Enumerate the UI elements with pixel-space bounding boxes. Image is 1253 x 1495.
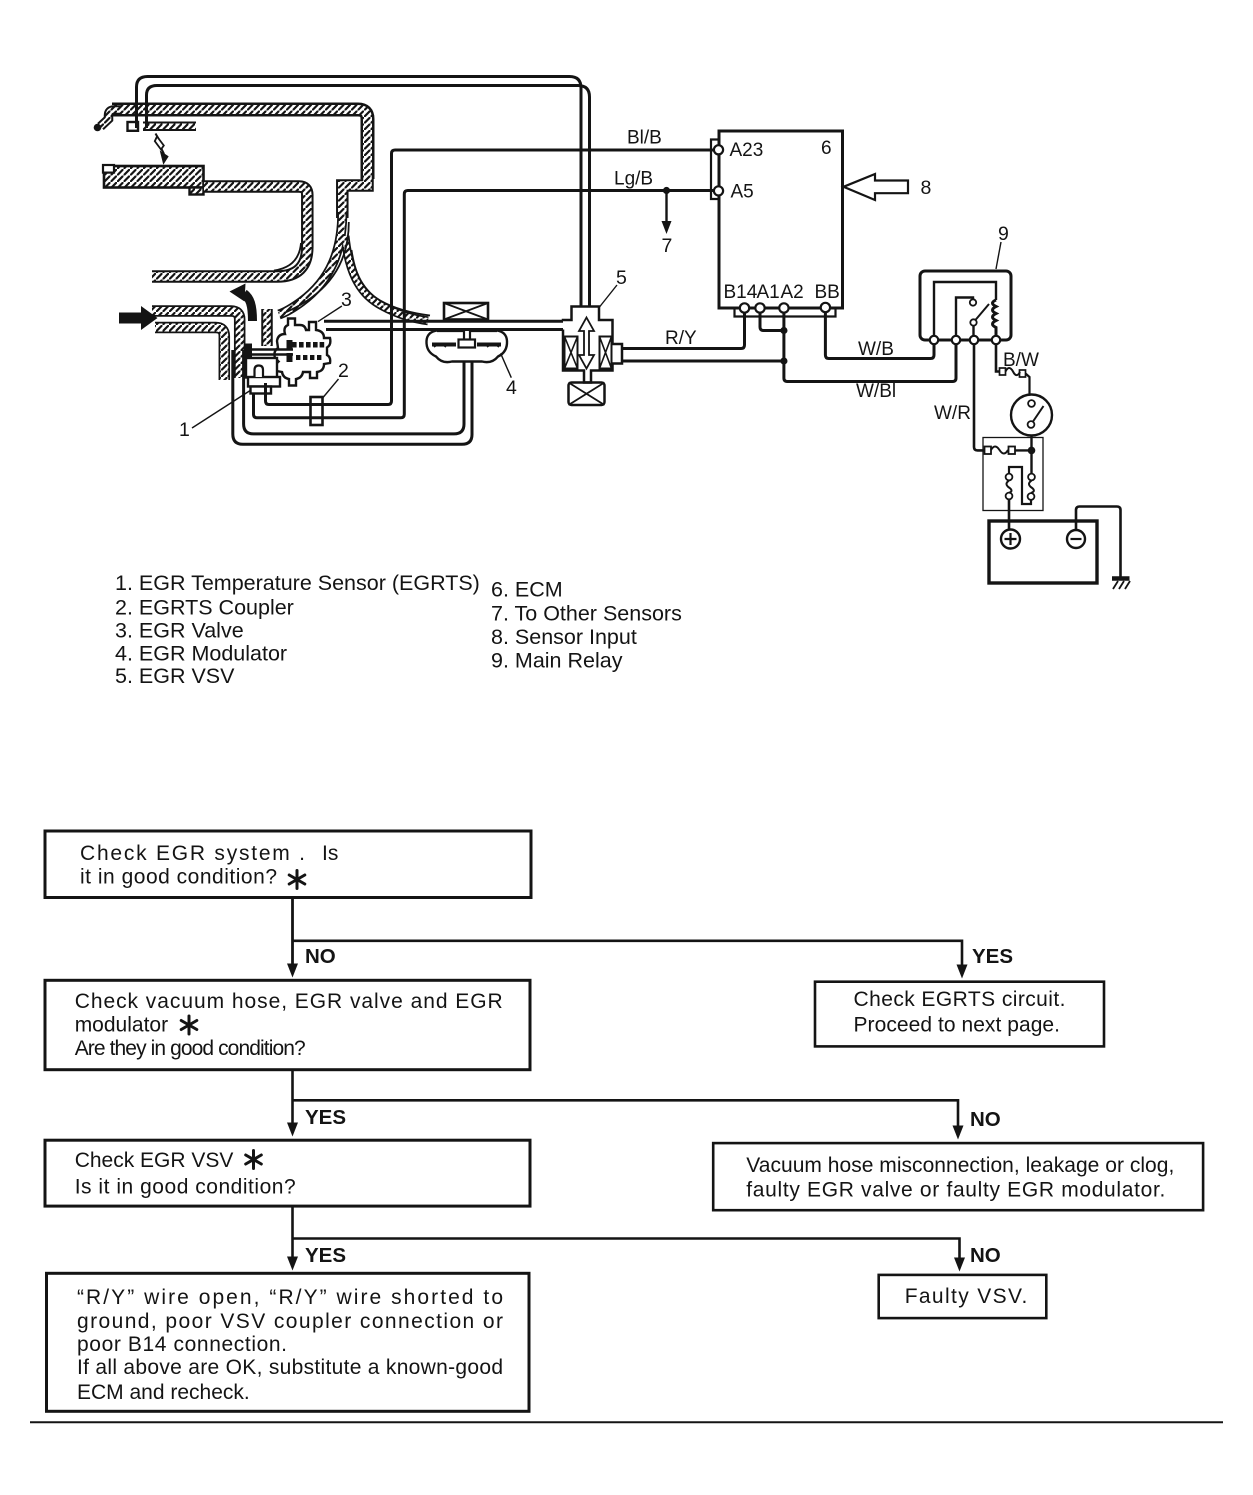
svg-text:5: 5 xyxy=(616,267,627,289)
pin A23 xyxy=(714,145,723,154)
svg-text:7: 7 xyxy=(662,235,673,257)
svg-text:Check vacuum hose, EGR valve a: Check vacuum hose, EGR valve and EGR xyxy=(75,990,503,1013)
wire R/Y (B14 to VSV) xyxy=(622,313,745,349)
flow box 1: Check EGR system xyxy=(45,831,531,898)
sensor input arrow 8 xyxy=(844,174,932,200)
pin B14 xyxy=(740,303,749,312)
throttle body block xyxy=(103,165,204,195)
runner curved walls (wishbone to EGR valve and hose) xyxy=(279,212,428,321)
ECM U6 box xyxy=(719,131,843,308)
callout 9 xyxy=(996,223,1009,269)
svg-text:9. Main Relay: 9. Main Relay xyxy=(491,649,623,673)
bottom rule xyxy=(30,1421,1223,1423)
callout 4 xyxy=(501,353,517,399)
arrow to EGRTS box (YES) xyxy=(957,945,1014,979)
ignition switch xyxy=(1011,395,1052,436)
runner inner thin lines xyxy=(284,222,430,316)
LEGEND xyxy=(115,571,682,688)
wire A2 down xyxy=(784,313,956,382)
pin A5 xyxy=(714,186,723,195)
svg-text:Check EGRTS circuit.: Check EGRTS circuit. xyxy=(854,988,1066,1011)
svg-text:ground, poor VSV coupler conne: ground, poor VSV coupler connection or xyxy=(77,1310,503,1333)
node A1/A2 xyxy=(780,327,787,334)
svg-text:Vacuum hose misconnection, lea: Vacuum hose misconnection, leakage or cl… xyxy=(746,1154,1174,1177)
wire battery negative to ground xyxy=(1076,507,1121,578)
flow box 4: R/Y wire open xyxy=(47,1273,530,1411)
flow box 3: Check EGR VSV xyxy=(45,1140,530,1206)
relay blade xyxy=(975,304,989,321)
ignition to fusible link wire xyxy=(1030,436,1032,474)
arrow box1 to box2 (NO) xyxy=(287,899,336,978)
svg-text:9: 9 xyxy=(998,223,1009,245)
inner wall bar xyxy=(143,122,196,132)
flow box: vacuum hose fault xyxy=(713,1143,1203,1210)
svg-text:2. EGRTS Coupler: 2. EGRTS Coupler xyxy=(115,596,294,620)
wire W/B (BB to relay) xyxy=(825,312,934,359)
node on Lg/B xyxy=(663,187,670,194)
fusible links xyxy=(1006,467,1035,504)
branch line row 1 xyxy=(293,941,963,966)
hose nipple square xyxy=(128,122,139,131)
svg-text:NO: NO xyxy=(970,1108,1001,1131)
ENGINE SECTION xyxy=(94,77,714,445)
svg-text:W/Bl: W/Bl xyxy=(856,381,896,402)
wire B/W (relay to ignition switch) xyxy=(996,344,1039,394)
relay contact upper xyxy=(970,299,976,305)
air horn hook lip xyxy=(94,110,121,131)
svg-text:YES: YES xyxy=(972,945,1013,968)
callout 3 xyxy=(318,289,352,322)
flow box 2: Check vacuum hose xyxy=(45,980,530,1069)
intake pipe top wall xyxy=(152,311,240,378)
svg-text:Check EGR system .: Check EGR system . xyxy=(80,842,305,865)
svg-text:it in good condition?: it in good condition? xyxy=(80,866,277,889)
EGR temperature sensor 1 xyxy=(246,358,280,394)
svg-text:Bl/B: Bl/B xyxy=(627,128,662,149)
flow box: Check EGRTS circuit xyxy=(815,982,1104,1047)
EGRTS wire lower (to Lg/B) xyxy=(254,191,715,418)
EGR modulator 4 xyxy=(426,331,507,363)
EGRTS coupler 2 xyxy=(311,397,323,425)
svg-text:“R/Y” wire open, “R/Y” wire sh: “R/Y” wire open, “R/Y” wire shorted to xyxy=(77,1286,503,1309)
svg-text:A1: A1 xyxy=(757,282,780,303)
branch line row 2 xyxy=(293,1100,959,1127)
ELECTRICAL xyxy=(614,128,1130,590)
EGRTS wire upper (to Bl/B) xyxy=(266,150,715,405)
svg-text:1. EGR Temperature Sensor (EGR: 1. EGR Temperature Sensor (EGRTS) xyxy=(115,571,480,595)
pin A2 xyxy=(779,303,788,312)
svg-text:2: 2 xyxy=(338,360,349,382)
svg-text:6: 6 xyxy=(821,138,832,159)
svg-text:8. Sensor Input: 8. Sensor Input xyxy=(491,625,637,649)
svg-text:Check EGR VSV: Check EGR VSV xyxy=(75,1149,234,1172)
callout 1 xyxy=(179,390,251,441)
fusible link box xyxy=(983,438,1043,511)
svg-text:YES: YES xyxy=(305,1244,346,1267)
pin A1 xyxy=(755,303,764,312)
svg-text:4. EGR Modulator: 4. EGR Modulator xyxy=(115,642,287,666)
EGR valve stem xyxy=(246,344,294,361)
svg-text:1: 1 xyxy=(179,419,190,441)
node W/R junction xyxy=(1028,447,1036,455)
runner wall down from flare xyxy=(342,176,367,218)
intake pipe bottom wall xyxy=(155,328,224,381)
plenum lower wall (L shape) xyxy=(152,187,307,277)
svg-text:Lg/B: Lg/B xyxy=(614,169,653,190)
relay contact lower xyxy=(970,319,976,325)
svg-text:A2: A2 xyxy=(781,282,804,303)
svg-text:faulty EGR valve or faulty EGR: faulty EGR valve or faulty EGR modulator… xyxy=(746,1179,1165,1202)
svg-text:3: 3 xyxy=(341,289,352,311)
wall stub left of EGR valve xyxy=(261,309,273,346)
vacuum hose top run (EGR VSV to manifold port) xyxy=(137,77,590,307)
svg-text:poor B14 connection.: poor B14 connection. xyxy=(77,1333,287,1356)
relay pins xyxy=(930,336,938,344)
EGR valve 3 xyxy=(274,319,330,386)
svg-text:Faulty VSV.: Faulty VSV. xyxy=(905,1285,1028,1308)
FLOWCHART xyxy=(30,831,1223,1422)
node VSV lower wire xyxy=(780,357,787,364)
ECM left connector bracket xyxy=(711,140,719,200)
arrow box3 to box4 (YES) xyxy=(287,1206,346,1270)
arrow to faulty VSV box (NO) xyxy=(954,1244,1001,1272)
relay coil branch xyxy=(934,282,996,336)
svg-text:Are they in good condition?: Are they in good condition? xyxy=(75,1037,306,1060)
svg-text:modulator: modulator xyxy=(75,1014,168,1037)
arrow to other sensors 7 xyxy=(662,193,673,257)
wire VSV lower (to A2 node) xyxy=(622,360,784,363)
wire W/R (relay to fuse) xyxy=(934,344,1032,454)
svg-text:ECM and recheck.: ECM and recheck. xyxy=(77,1381,250,1404)
svg-text:YES: YES xyxy=(305,1106,346,1129)
EGR VSV 5 xyxy=(563,307,622,383)
svg-text:NO: NO xyxy=(970,1244,1001,1267)
relay coil xyxy=(993,300,997,336)
wire A1 jumper xyxy=(760,313,784,331)
svg-text:Is: Is xyxy=(322,842,338,865)
main relay 9 box xyxy=(920,271,1011,340)
svg-text:BB: BB xyxy=(815,282,840,303)
svg-text:3. EGR Valve: 3. EGR Valve xyxy=(115,619,244,643)
VSV bottom filter xyxy=(569,383,605,406)
svg-text:NO: NO xyxy=(305,945,336,968)
svg-text:7. To Other Sensors: 7. To Other Sensors xyxy=(491,602,682,626)
svg-text:5. EGR VSV: 5. EGR VSV xyxy=(115,664,235,688)
callout 2 xyxy=(323,360,349,398)
arrow to vacuum-hose-fault box (NO) xyxy=(953,1108,1001,1140)
arrow box2 to box3 (YES) xyxy=(287,1070,346,1137)
svg-text:Proceed to next page.: Proceed to next page. xyxy=(854,1014,1061,1037)
svg-text:Is it in good condition?: Is it in good condition? xyxy=(75,1176,296,1199)
intake air arrow xyxy=(119,306,158,330)
svg-text:B/W: B/W xyxy=(1003,350,1039,371)
svg-text:A23: A23 xyxy=(730,140,764,161)
modulator air filter xyxy=(444,303,488,320)
svg-text:6. ECM: 6. ECM xyxy=(491,578,563,602)
svg-text:B14: B14 xyxy=(724,282,758,303)
throttle needle xyxy=(155,134,168,164)
callout 5 xyxy=(599,267,627,308)
ground xyxy=(1112,579,1130,590)
wire to battery positive xyxy=(1008,500,1011,531)
svg-text:W/B: W/B xyxy=(858,339,894,360)
svg-text:If all above are OK, substitut: If all above are OK, substitute a known-… xyxy=(77,1356,503,1379)
exhaust gas curved arrow xyxy=(230,284,253,322)
svg-text:R/Y: R/Y xyxy=(665,328,697,349)
intake manifold top wall xyxy=(112,110,368,180)
hose intake to EGR modulator (bottom) xyxy=(233,350,472,444)
branch line row 3 xyxy=(293,1239,960,1260)
svg-text:A5: A5 xyxy=(731,182,754,203)
relay switch branch xyxy=(956,298,973,337)
hose EGR valve to VSV xyxy=(324,321,563,329)
pin BB xyxy=(821,303,830,312)
svg-text:4: 4 xyxy=(506,377,517,399)
svg-text:W/R: W/R xyxy=(934,403,971,424)
flow box: faulty VSV xyxy=(879,1275,1047,1318)
svg-text:8: 8 xyxy=(921,177,932,199)
battery xyxy=(989,521,1097,583)
ECM bottom pins bracket xyxy=(735,308,836,317)
